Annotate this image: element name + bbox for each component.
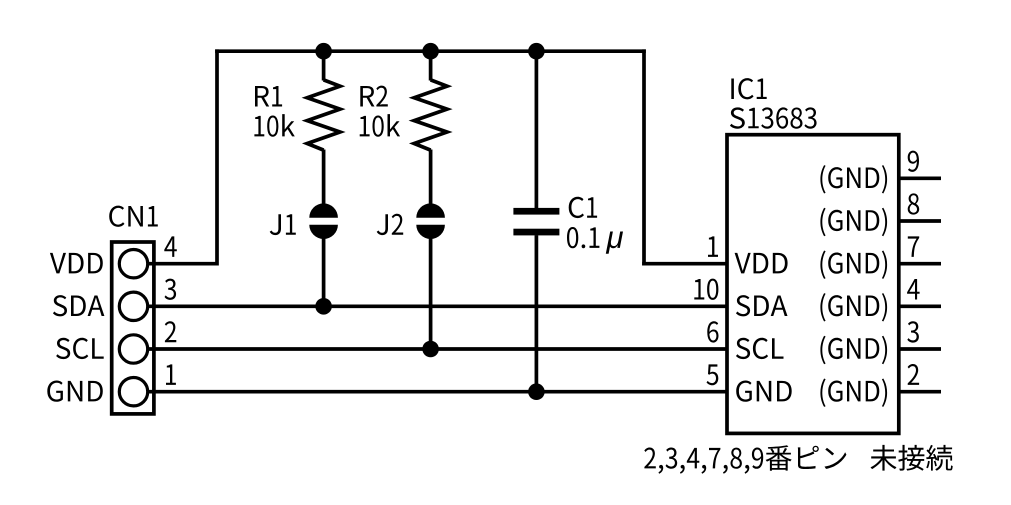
net label GND (CN1) bbox=[47, 381, 103, 402]
wire: R2 to jumper J2 bbox=[429, 150, 433, 205]
net label VDD (CN1) bbox=[50, 253, 103, 274]
wire: CN1 pin 4 to left vertical bbox=[146, 262, 217, 266]
IC1 left pin number 5 bbox=[707, 364, 719, 385]
IC1 pin name GND bbox=[736, 381, 792, 402]
IC1 right pin number 9 bbox=[908, 151, 919, 172]
wire: top rail to R2 bbox=[429, 51, 433, 80]
junction on top rail at R1 bbox=[315, 43, 332, 60]
IC1 right pin 3 stub bbox=[899, 347, 941, 351]
IC1 right pin number 2 bbox=[908, 364, 920, 385]
CN1 pin number 4 bbox=[164, 236, 177, 257]
resistor R1 label bbox=[255, 86, 282, 107]
wire: horizontal into IC1 pin 1 (VDD) bbox=[642, 262, 727, 266]
IC1 pin name VDD bbox=[735, 253, 788, 274]
IC1 right pin number 4 bbox=[907, 279, 920, 300]
IC1 pin 9 (GND) label bbox=[820, 165, 887, 193]
IC1 pin 7 (GND) label bbox=[820, 251, 887, 279]
IC1 pin 8 (GND) label bbox=[820, 208, 887, 236]
connector CN1 body bbox=[112, 242, 154, 414]
resistor R2 bbox=[414, 80, 447, 150]
IC1 left pin number 10 bbox=[694, 279, 718, 300]
connector CN1 label bbox=[109, 206, 158, 227]
CN1 pin number 2 bbox=[165, 321, 177, 342]
junction on top rail at R2 bbox=[422, 43, 439, 60]
CN1 pin 4 circle bbox=[119, 250, 147, 278]
resistor R2 label bbox=[360, 86, 388, 107]
IC1 pin name SDA bbox=[736, 295, 788, 316]
junction on top rail at C1 bbox=[528, 43, 545, 60]
IC1 right pin number 3 bbox=[907, 321, 919, 342]
resistor R1 value 10k bbox=[254, 114, 294, 137]
IC1 pin 4 (GND) label bbox=[820, 293, 887, 321]
IC1 right pin number 7 bbox=[908, 236, 919, 257]
note: pins 2,3,4,7,8,9 unconnected (part 1) bbox=[644, 445, 846, 474]
IC1 reference label bbox=[731, 78, 766, 99]
capacitor C1 value 0.1 bbox=[567, 227, 599, 248]
junction on SCL net at J2 bbox=[422, 341, 439, 358]
IC1 right pin 9 stub bbox=[899, 176, 941, 180]
capacitor C1 label bbox=[569, 197, 597, 218]
resistor R2 value 10k bbox=[360, 114, 400, 137]
CN1 pin 3 circle bbox=[119, 292, 147, 320]
wire: J1 down to SDA net bbox=[322, 239, 326, 307]
CN1 pin 1 circle bbox=[119, 378, 147, 406]
jumper J2 bbox=[416, 203, 445, 217]
IC1 right pin 8 stub bbox=[899, 219, 941, 223]
IC U1 (IC1) body bbox=[727, 135, 899, 434]
IC1 pin name SCL bbox=[736, 338, 784, 359]
IC1 pin 3 (GND) label bbox=[820, 336, 887, 364]
wire: top rail to C1 bbox=[535, 51, 539, 208]
jumper J1 bbox=[309, 203, 338, 217]
capacitor C1 value mu bbox=[606, 232, 623, 254]
resistor R1 bbox=[307, 80, 340, 150]
CN1 pin number 3 bbox=[165, 279, 177, 300]
wire: R1 to jumper J1 bbox=[322, 150, 326, 205]
IC1 left pin number 1 bbox=[708, 236, 718, 257]
wire: VDD top rail bbox=[215, 49, 646, 53]
wire: C1 down to GND net bbox=[535, 235, 539, 392]
IC1 right pin number 8 bbox=[908, 193, 920, 214]
junction on SDA net at J1 bbox=[315, 298, 332, 315]
CN1 pin 2 circle bbox=[119, 335, 147, 363]
jumper J1 label bbox=[270, 214, 296, 235]
wire: SDA net from CN1 pin 3 to IC1 pin 10 bbox=[146, 304, 727, 308]
IC1 right pin 4 stub bbox=[899, 304, 941, 308]
IC1 left pin number 6 bbox=[707, 321, 718, 342]
jumper J2 label bbox=[377, 214, 404, 235]
junction on GND net at C1 bbox=[528, 383, 545, 400]
wire: top rail to R1 bbox=[322, 51, 326, 80]
wire: left vertical from top rail to CN1 pin 4 bbox=[215, 49, 219, 265]
IC1 right pin 7 stub bbox=[899, 262, 941, 266]
note: unconnected (part 2) bbox=[871, 445, 953, 471]
CN1 pin number 1 bbox=[166, 364, 176, 385]
wire: GND net from CN1 pin 1 to IC1 pin 5 bbox=[146, 390, 727, 394]
IC1 part number S13683 bbox=[730, 107, 817, 128]
wire: SCL net from CN1 pin 2 to IC1 pin 6 bbox=[146, 347, 727, 351]
IC1 pin 2 (GND) label bbox=[820, 379, 887, 407]
net label SDA (CN1) bbox=[53, 295, 105, 316]
capacitor C1 bbox=[513, 208, 559, 215]
wire: J2 down to SCL net bbox=[429, 239, 433, 350]
wire: right vertical from top rail down bbox=[642, 49, 646, 265]
IC1 right pin 2 stub bbox=[899, 390, 941, 394]
net label SCL (CN1) bbox=[56, 338, 104, 359]
